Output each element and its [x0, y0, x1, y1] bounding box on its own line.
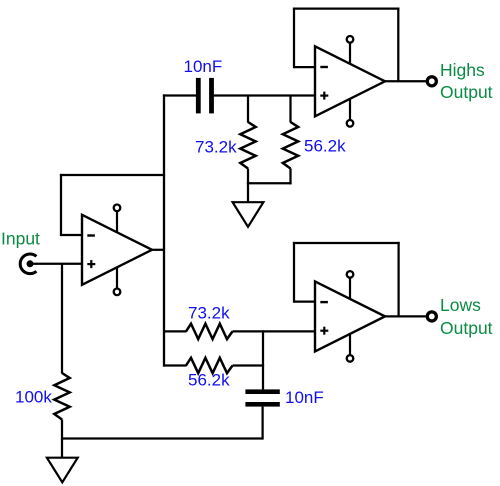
capacitor C2 10nF top plate	[245, 389, 279, 394]
terminal: Lows output	[427, 312, 436, 321]
ground symbol bottom	[47, 458, 78, 483]
input terminal arc	[20, 254, 36, 274]
wire: U3 feedback left vertical	[293, 242, 295, 303]
wire: bottom ground rail	[62, 437, 263, 439]
op-amp U1	[82, 205, 152, 296]
svg-text:10nF: 10nF	[285, 388, 324, 407]
wire: vertical bus carrying U1 output	[163, 94, 165, 366]
resistor R4 56.2k left lead from bus	[164, 364, 187, 366]
wire: input to U1 plus input	[33, 263, 83, 265]
svg-text:Output: Output	[440, 82, 493, 102]
capacitor C1 10nF left plate	[196, 78, 201, 114]
wire: U1 minus input	[61, 234, 83, 236]
svg-text:Output: Output	[440, 318, 493, 338]
resistor R5 100k	[54, 373, 69, 420]
svg-text:73.2k: 73.2k	[195, 138, 237, 157]
wire: U2 output to terminal	[385, 80, 426, 82]
wire: U2 feedback top	[293, 7, 400, 9]
wire: U3 minus input	[294, 300, 316, 302]
wire: U3 feedback top	[293, 242, 400, 244]
resistor R2 56.2k top stub	[289, 96, 291, 123]
op-amp U2 highs	[315, 36, 385, 127]
wire: R4 right lead to junction	[233, 364, 265, 366]
wire: stub to top ground	[247, 183, 249, 202]
svg-text:100k: 100k	[15, 388, 52, 407]
svg-text:Lows: Lows	[440, 295, 481, 315]
wire: U2 feedback right vertical	[397, 8, 399, 82]
wire: U3 feedback right vertical	[397, 242, 399, 317]
svg-text:Highs: Highs	[440, 60, 485, 80]
wire: U1 output from apex to bus	[152, 249, 165, 251]
wire: top cap net, left segment from bus to C1	[163, 94, 197, 96]
wire: joining R1 and R2 bottoms	[247, 182, 292, 184]
wire: C2 bottom to ground rail	[261, 407, 263, 440]
wire: R1 bottom lead	[247, 169, 249, 185]
wire: U2 feedback left vertical	[293, 8, 295, 69]
wire: U3 output to terminal	[385, 315, 426, 317]
op-amp U3 lows	[315, 271, 385, 362]
svg-text:10nF: 10nF	[184, 57, 223, 76]
wire: R3 right lead to U3 plus input	[233, 330, 317, 332]
wire: R5 bottom to ground rail	[61, 420, 63, 440]
resistor R3 73.2k left lead from bus	[164, 330, 187, 332]
svg-text:56.2k: 56.2k	[188, 371, 230, 390]
svg-text:73.2k: 73.2k	[188, 303, 230, 322]
resistor R1 73.2k zigzag	[240, 122, 255, 168]
ground symbol top	[233, 202, 264, 227]
capacitor C1 10nF right plate	[209, 78, 214, 114]
wire: vertical from input node down to R5	[61, 264, 63, 374]
input terminal dot	[27, 260, 34, 267]
wire: ground stub below rail	[61, 439, 63, 458]
wire: U2 minus input	[294, 66, 316, 68]
resistor R2 56.2k zigzag	[283, 122, 298, 168]
wire: junction vertical from R3 node down to C2	[262, 330, 264, 389]
wire: R2 bottom lead	[289, 169, 291, 185]
resistor R1 73.2k top stub	[247, 96, 249, 123]
resistor R3 73.2k zigzag	[186, 324, 232, 339]
resistor R4 56.2k zigzag	[186, 358, 232, 373]
svg-text:56.2k: 56.2k	[304, 137, 346, 156]
wire: U1 feedback top	[60, 174, 165, 176]
svg-text:Input: Input	[1, 229, 40, 249]
wire: top cap net, right segment from C1 to U2 plus input	[214, 94, 316, 96]
terminal: Highs output	[427, 77, 436, 86]
capacitor C2 10nF bottom plate	[245, 402, 279, 407]
wire: U1 feedback left vertical	[60, 174, 62, 236]
